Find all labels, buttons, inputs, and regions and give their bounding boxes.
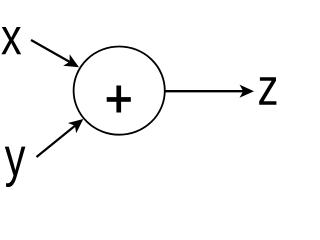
- wire: arrow from y into summing junction: [37, 119, 84, 157]
- plus sign inside summing junction: [107, 86, 131, 113]
- label z (output): [259, 77, 276, 105]
- wire: output arrow to z: [165, 85, 254, 98]
- label y (input): [5, 147, 26, 187]
- label x (input): [1, 27, 21, 54]
- wire: arrow from x into summing junction: [31, 40, 79, 67]
- summing junction circle: [74, 47, 165, 135]
